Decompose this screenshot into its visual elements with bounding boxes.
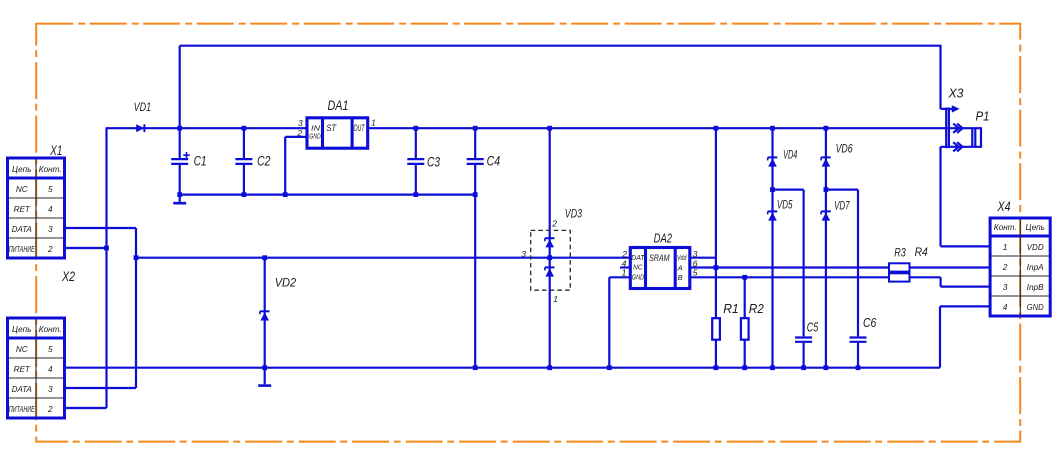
svg-text:GND: GND: [309, 134, 321, 141]
svg-text:InpA: InpA: [1027, 263, 1045, 272]
svg-text:X4: X4: [997, 198, 1011, 214]
svg-text:X1: X1: [50, 142, 63, 158]
svg-text:ПИТАНИЕ: ПИТАНИЕ: [9, 245, 35, 254]
svg-text:VD3: VD3: [565, 207, 582, 221]
svg-text:5: 5: [48, 345, 53, 354]
svg-text:C6: C6: [863, 316, 876, 330]
svg-text:R1: R1: [723, 302, 739, 316]
svg-text:A: A: [677, 263, 683, 272]
svg-text:NC: NC: [633, 265, 643, 272]
svg-text:2: 2: [1002, 263, 1008, 272]
svg-text:DATA: DATA: [12, 225, 33, 234]
svg-text:1: 1: [622, 268, 627, 278]
svg-text:C4: C4: [487, 154, 501, 169]
svg-text:5: 5: [693, 268, 698, 278]
svg-text:Конт.: Конт.: [994, 223, 1017, 232]
svg-text:VDD: VDD: [1027, 243, 1044, 252]
svg-text:DAT: DAT: [631, 255, 645, 262]
svg-text:VD1: VD1: [134, 102, 152, 114]
svg-text:DATA: DATA: [12, 385, 33, 394]
svg-text:X2: X2: [61, 268, 75, 284]
svg-text:2: 2: [296, 128, 302, 138]
svg-text:3: 3: [48, 385, 53, 394]
svg-text:2: 2: [551, 219, 557, 229]
svg-text:2: 2: [47, 245, 53, 254]
svg-text:R4: R4: [915, 245, 928, 259]
svg-text:OUT: OUT: [354, 123, 366, 133]
svg-text:VD2: VD2: [275, 276, 297, 290]
svg-text:RET: RET: [14, 365, 31, 374]
svg-text:Цепь: Цепь: [12, 325, 32, 334]
svg-text:DA1: DA1: [328, 98, 349, 113]
svg-text:SRAM: SRAM: [649, 253, 670, 263]
svg-text:InpB: InpB: [1027, 283, 1045, 292]
svg-text:Vdd: Vdd: [677, 253, 687, 262]
svg-text:1: 1: [371, 117, 376, 127]
svg-text:Конт.: Конт.: [39, 325, 62, 334]
svg-text:C2: C2: [257, 154, 271, 169]
svg-text:3: 3: [48, 225, 53, 234]
svg-text:C5: C5: [807, 320, 819, 334]
svg-text:1: 1: [1003, 243, 1008, 252]
svg-text:NC: NC: [16, 185, 28, 194]
svg-text:3: 3: [1003, 283, 1008, 292]
svg-text:3: 3: [521, 249, 526, 259]
svg-text:VD7: VD7: [834, 199, 850, 213]
svg-text:VD4: VD4: [783, 148, 797, 162]
svg-text:1: 1: [553, 294, 558, 304]
svg-text:Конт.: Конт.: [39, 165, 62, 174]
svg-text:5: 5: [48, 185, 53, 194]
svg-text:GND: GND: [632, 275, 645, 282]
svg-text:R2: R2: [749, 302, 764, 316]
svg-text:Цепь: Цепь: [1025, 223, 1045, 232]
svg-text:2: 2: [47, 405, 53, 414]
svg-text:NC: NC: [16, 345, 28, 354]
svg-text:ST: ST: [326, 123, 337, 134]
svg-text:X3: X3: [948, 86, 965, 101]
svg-text:P1: P1: [976, 109, 990, 124]
svg-text:4: 4: [48, 365, 53, 374]
svg-text:GND: GND: [1027, 303, 1044, 312]
svg-text:DA2: DA2: [654, 232, 673, 246]
svg-text:4: 4: [1003, 303, 1008, 312]
svg-text:RET: RET: [14, 205, 31, 214]
svg-text:B: B: [678, 273, 683, 282]
svg-text:VD5: VD5: [777, 197, 793, 211]
svg-text:Цепь: Цепь: [12, 165, 32, 174]
svg-text:C1: C1: [194, 154, 207, 169]
svg-text:4: 4: [48, 205, 53, 214]
svg-text:C3: C3: [427, 155, 440, 170]
svg-text:R3: R3: [894, 245, 906, 259]
svg-text:3: 3: [298, 118, 303, 128]
svg-text:IN: IN: [311, 125, 321, 132]
svg-text:VD6: VD6: [836, 142, 853, 156]
svg-text:ПИТАНИЕ: ПИТАНИЕ: [9, 405, 35, 414]
